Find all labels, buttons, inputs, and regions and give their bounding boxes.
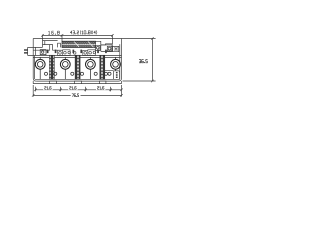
- pole3 boxes: [83, 50, 96, 56]
- dimension 36.5 right: [123, 37, 156, 82]
- screw terminal 4: [111, 59, 121, 69]
- small wire holes: [44, 72, 111, 75]
- dim text 21.6 b: [70, 87, 77, 90]
- body right edge: [119, 39, 122, 82]
- right deck profile: [96, 41, 113, 46]
- small box w circle left: [40, 50, 46, 55]
- base plate: [33, 81, 121, 84]
- hatched top block: [62, 41, 96, 47]
- bottom dimension row 21.6: [34, 87, 123, 92]
- dim text 76.5: [72, 94, 79, 97]
- bottom dimension row 76.5: [32, 85, 123, 97]
- right deck box A: [96, 45, 101, 50]
- big screw circles: [35, 57, 120, 79]
- left pins: [24, 50, 28, 53]
- extension line x=42.5: [42, 35, 44, 48]
- extension line x=62: [61, 35, 63, 42]
- body left edge: [33, 39, 36, 82]
- left deck line: [43, 41, 58, 45]
- body bottom line A: [35, 78, 120, 80]
- dim text 16.8: [48, 31, 59, 34]
- screw terminal 2: [60, 59, 70, 69]
- body left inner wall: [33, 56, 35, 80]
- left notch: [33, 45, 62, 51]
- inner right wall: [119, 44, 121, 79]
- white gaps for 21.6 labels: [43, 86, 52, 90]
- right clip box: [105, 71, 120, 80]
- hatch bar 2: [75, 55, 80, 79]
- small box left of hatch: [58, 43, 61, 47]
- hatch bar 1: [49, 55, 104, 79]
- extension line x=112.4: [111, 35, 113, 44]
- body bottom line B: [36, 80, 118, 82]
- dark clamp squares: [47, 50, 107, 54]
- right deck box B: [101, 45, 113, 52]
- band line y=57.4: [33, 56, 121, 58]
- screw terminal 3: [86, 59, 96, 69]
- hatch bar 3: [100, 55, 105, 79]
- right screw box: [113, 46, 119, 51]
- bottom feet: [50, 81, 106, 84]
- pole2 boxes: [58, 50, 71, 56]
- dim text 21.6 c: [97, 87, 104, 90]
- dimension line 16.8 / 43.2 top: [43, 34, 113, 36]
- screw terminal 1: [35, 59, 45, 69]
- body top edge + right extension: [33, 38, 155, 40]
- left pin box: [28, 47, 43, 55]
- dim text 43.2(10.8X4): [70, 31, 97, 35]
- clamp boxes and small screws row: [58, 50, 96, 56]
- dim text 36.5: [139, 60, 147, 63]
- screw band bottom line: [33, 55, 121, 57]
- dim text 21.6 a: [45, 87, 52, 90]
